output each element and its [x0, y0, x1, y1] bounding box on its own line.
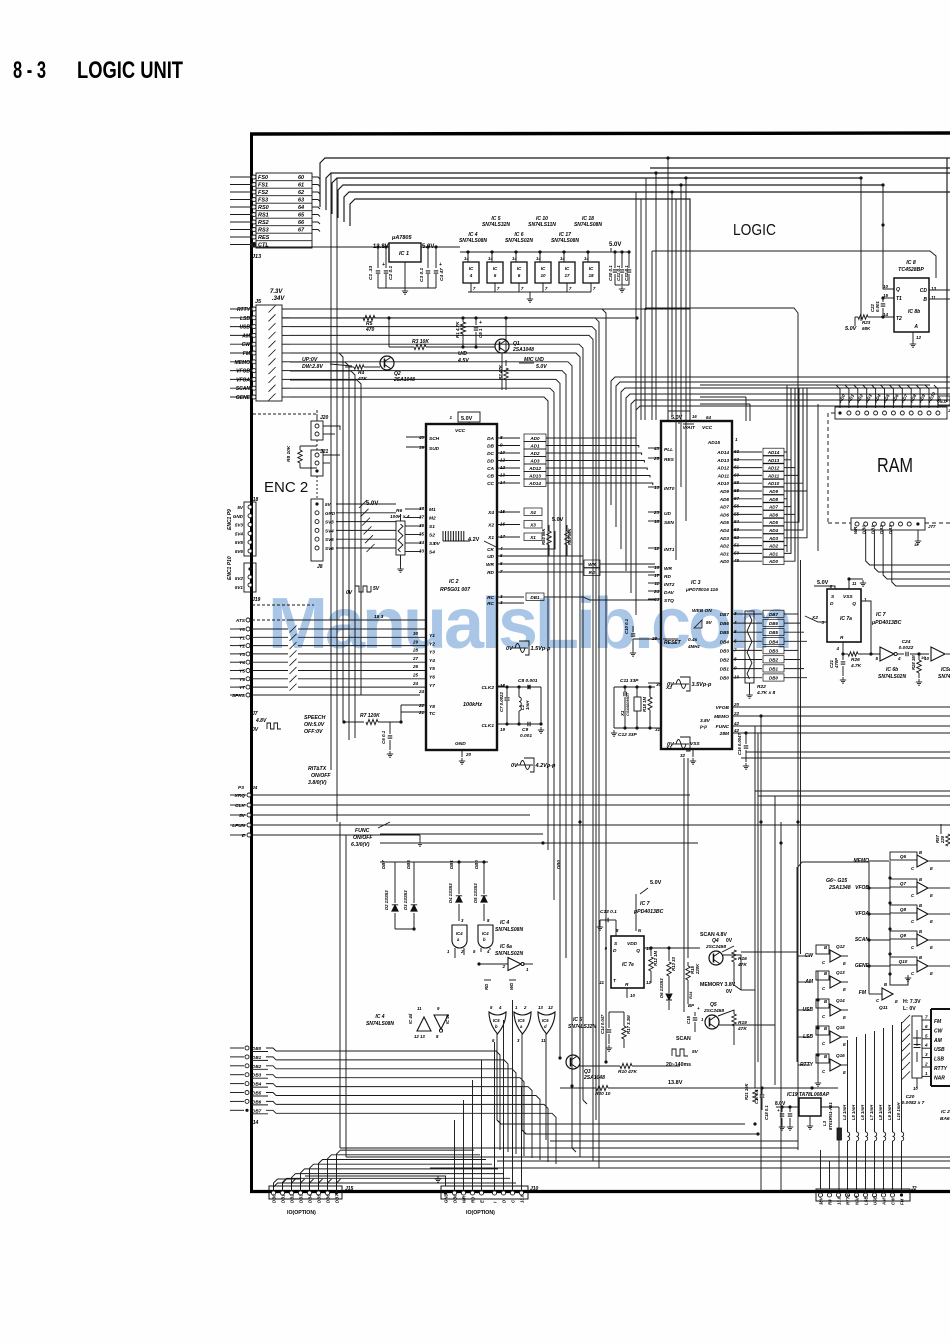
svg-text:B: B — [919, 903, 922, 908]
svg-text:VFOB: VFOB — [236, 369, 250, 375]
capacitor C32 0.1 — [628, 252, 630, 268]
svg-text:D2 1SS53: D2 1SS53 — [384, 890, 389, 910]
svg-text:CB: CB — [487, 474, 494, 480]
svg-text:RAM: RAM — [877, 455, 913, 477]
svg-text:11: 11 — [599, 980, 604, 985]
wire mode rail trunk x869 — [868, 862, 870, 994]
svg-text:34: 34 — [419, 540, 425, 545]
svg-text:19: 19 — [500, 727, 506, 732]
svg-text:Q12: Q12 — [836, 944, 845, 949]
svg-text:5V6: 5V6 — [235, 549, 244, 554]
resistor array block right — [912, 1016, 922, 1078]
wire 5V row y309 — [282, 308, 690, 310]
svg-text:R14: R14 — [688, 991, 693, 999]
svg-text:AD14: AD14 — [767, 450, 780, 455]
junction top bus — [666, 156, 669, 159]
wire J14 bus rightward — [276, 1051, 500, 1150]
svg-text:5V: 5V — [239, 813, 246, 819]
svg-text:IC 7: IC 7 — [640, 901, 651, 907]
svg-text:RES: RES — [258, 235, 270, 241]
svg-text:A: A — [913, 324, 918, 330]
svg-text:J77: J77 — [928, 524, 936, 529]
svg-text:DB2: DB2 — [252, 1064, 262, 1069]
svg-text:DB4: DB4 — [308, 1194, 313, 1203]
svg-text:Q11: Q11 — [879, 1005, 888, 1011]
svg-text:ON/OFF: ON/OFF — [353, 835, 373, 841]
svg-text:RTTY: RTTY — [237, 307, 251, 313]
svg-text:R26: R26 — [851, 657, 860, 663]
svg-text:54: 54 — [734, 519, 740, 524]
wire vertical x688 lower — [687, 758, 689, 958]
svg-text:47K: 47K — [737, 962, 747, 968]
svg-text:C7 0.0022: C7 0.0022 — [499, 692, 504, 712]
resistor R5 470 — [282, 317, 363, 319]
wire x803 x807 verticals — [802, 388, 804, 452]
wire emitters to matrix — [848, 961, 906, 963]
ground crystal — [613, 687, 615, 728]
wire top bus y192 — [344, 192, 950, 222]
IC3 uPD78016 microprocessor — [661, 421, 732, 749]
svg-text:S1: S1 — [429, 524, 435, 530]
svg-text:μPD4013BC: μPD4013BC — [871, 620, 902, 626]
capacitor C3 0.1 — [427, 247, 429, 268]
wire J5 descenders left group — [290, 353, 343, 722]
svg-text:FS3: FS3 — [258, 198, 268, 204]
svg-text:2: 2 — [924, 1062, 928, 1067]
wire MEMO down — [760, 716, 762, 790]
svg-text:INT2: INT2 — [664, 582, 675, 588]
svg-text:WEB ON: WEB ON — [692, 608, 712, 614]
svg-text:DB7: DB7 — [720, 612, 730, 617]
svg-text:62: 62 — [298, 190, 304, 196]
svg-text:D6 1SS53: D6 1SS53 — [659, 978, 664, 998]
svg-text:24: 24 — [418, 689, 425, 694]
svg-text:53: 53 — [734, 527, 740, 532]
wire vertical x695 lower — [694, 755, 696, 790]
wire top bus y185 — [338, 185, 883, 218]
svg-text:0V: 0V — [252, 727, 259, 733]
wire J2 stubs — [820, 1150, 822, 1189]
svg-text:220: 220 — [940, 835, 945, 844]
svg-text:GND: GND — [444, 1193, 449, 1203]
resistor R10 47K — [580, 1065, 620, 1067]
svg-text:Q6: Q6 — [900, 854, 907, 859]
svg-text:RD: RD — [484, 983, 489, 990]
wire J13 outputs — [312, 177, 320, 179]
svg-text:68K: 68K — [862, 326, 871, 331]
svg-text:RD: RD — [471, 1197, 476, 1203]
page title — [13, 57, 183, 84]
svg-text:ATS: ATS — [235, 618, 246, 624]
waveform 1.5Vpp — [512, 641, 529, 655]
svg-text:IC5: IC5 — [542, 1018, 549, 1023]
wire vertical x684 lower — [683, 758, 685, 1012]
svg-text:DB3: DB3 — [720, 648, 730, 653]
svg-text:16: 16 — [500, 522, 506, 527]
capacitor C7 0.0022 — [505, 698, 510, 700]
svg-text:RS1: RS1 — [258, 213, 269, 219]
ground J4 E — [419, 835, 421, 840]
capacitor C15 1 — [694, 1012, 696, 1016]
wire mode rail horizontal — [798, 862, 869, 867]
wire vertical bus x798 — [797, 385, 799, 1150]
svg-text:B: B — [884, 982, 887, 987]
svg-text:WR: WR — [486, 562, 495, 568]
wire IC3 top feeders — [745, 397, 747, 421]
svg-text:SPEECH: SPEECH — [304, 715, 326, 721]
svg-text:L9 1mH: L9 1mH — [887, 1104, 892, 1120]
svg-text:J7: J7 — [252, 711, 258, 717]
wire top bus y178 — [332, 178, 861, 214]
svg-text:4.7K x 8: 4.7K x 8 — [756, 690, 775, 696]
resistor R1 4.7K — [462, 318, 464, 322]
svg-text:AD1: AD1 — [719, 551, 730, 556]
svg-text:Y3: Y3 — [239, 652, 245, 658]
svg-text:C20: C20 — [906, 1094, 915, 1100]
svg-text:AM: AM — [241, 333, 251, 339]
svg-text:AD15: AD15 — [707, 440, 721, 446]
svg-text:X4: X4 — [529, 510, 536, 515]
svg-text:WAIT: WAIT — [683, 425, 696, 431]
svg-text:GENE: GENE — [236, 395, 251, 401]
svg-text:IC 4d: IC 4d — [408, 1013, 413, 1024]
svg-text:X3: X3 — [529, 523, 536, 528]
junction right bus — [859, 176, 862, 179]
svg-text:VFOA: VFOA — [855, 911, 869, 917]
svg-text:10: 10 — [913, 1086, 918, 1091]
capacitor C16 0.0047 — [745, 733, 747, 744]
svg-text:VSS: VSS — [690, 741, 700, 747]
svg-text:R17 3.3M: R17 3.3M — [626, 1015, 631, 1034]
wire vertical x755 — [760, 716, 762, 790]
svg-text:2SC2458: 2SC2458 — [703, 1008, 724, 1014]
connector J10 option — [441, 1186, 528, 1199]
svg-text:43: 43 — [653, 446, 660, 451]
svg-text:0.0022: 0.0022 — [899, 645, 914, 651]
svg-text:+: + — [382, 262, 385, 268]
svg-text:Y7: Y7 — [429, 683, 435, 689]
svg-text:Q7: Q7 — [900, 881, 907, 886]
wire top bus y158 — [320, 158, 950, 207]
svg-text:8 - 3: 8 - 3 — [13, 57, 46, 84]
svg-text:WD: WD — [509, 982, 514, 990]
svg-text:DB7: DB7 — [769, 612, 778, 617]
wire vertical x761 x775 x781 — [760, 790, 762, 1191]
svg-text:42: 42 — [733, 721, 740, 726]
svg-text:4: 4 — [835, 646, 839, 651]
svg-text:29: 29 — [651, 636, 658, 641]
svg-text:B: B — [824, 999, 827, 1004]
svg-text:E: E — [843, 987, 846, 992]
wire long horizontal y1157 — [346, 1156, 950, 1158]
resistor array R22 4.7Kx8 — [745, 611, 754, 683]
waveform 4.2Vpp — [517, 758, 534, 772]
svg-text:PLL: PLL — [664, 447, 673, 453]
svg-text:65: 65 — [298, 213, 305, 219]
svg-text:4: 4 — [499, 546, 503, 551]
svg-text:470P: 470P — [834, 658, 839, 669]
svg-text:AD14: AD14 — [528, 481, 541, 486]
svg-text:BA6: BA6 — [940, 1116, 950, 1122]
resistor R7 120K — [344, 721, 364, 723]
svg-text:Q15: Q15 — [836, 1025, 845, 1030]
transistor Q12 CW — [816, 945, 829, 954]
ground gate row — [527, 296, 533, 302]
wire y1141 long — [550, 1140, 798, 1142]
svg-text:DB6: DB6 — [769, 621, 778, 626]
svg-text:DB1: DB1 — [769, 667, 778, 672]
svg-text:18: 18 — [914, 542, 919, 547]
wire Q6-Q10 emitters to right edge — [934, 860, 950, 862]
svg-text:28M: 28M — [719, 731, 730, 737]
svg-text:D5 1SS53: D5 1SS53 — [473, 883, 478, 903]
wire vertical x331 — [330, 173, 332, 770]
svg-text:S4: S4 — [429, 550, 435, 556]
IC7a uPD4013 flip-flop — [827, 589, 861, 642]
svg-text:E: E — [930, 971, 933, 976]
waveform X1 — [673, 737, 690, 751]
svg-text:CLK2: CLK2 — [481, 685, 494, 691]
resistor R17 3.3M — [623, 1012, 625, 1026]
svg-text:67: 67 — [298, 228, 305, 234]
wire J14 bus to right — [276, 1063, 950, 1065]
svg-text:AD12: AD12 — [716, 466, 729, 471]
svg-text:5V4: 5V4 — [235, 531, 244, 536]
svg-text:5V1: 5V1 — [235, 585, 244, 590]
transistor Q6 MEMO — [890, 852, 917, 860]
svg-text:DB2: DB2 — [290, 1194, 295, 1203]
svg-text:55: 55 — [734, 511, 740, 516]
wire RAM DB down-right — [866, 530, 950, 565]
transistor Q16 RTTY — [816, 1054, 829, 1063]
svg-text:60: 60 — [734, 472, 740, 477]
svg-text:P3: P3 — [238, 785, 244, 791]
svg-text:SN74LS08N: SN74LS08N — [574, 222, 602, 228]
svg-text:C12 33P: C12 33P — [618, 732, 637, 738]
svg-text:10: 10 — [540, 273, 546, 278]
svg-text:AD5: AD5 — [719, 520, 730, 525]
svg-text:SV3: SV3 — [325, 520, 334, 525]
svg-text:11: 11 — [654, 581, 659, 586]
resistor R14 — [687, 990, 689, 1004]
svg-text:Y8: Y8 — [429, 704, 435, 710]
svg-text:D: D — [502, 1200, 507, 1203]
transistor Q13 AM — [816, 971, 829, 980]
svg-text:IC 8: IC 8 — [906, 260, 916, 266]
transistor Q3 2SA1048 — [566, 1055, 580, 1069]
svg-text:DB4: DB4 — [720, 639, 730, 644]
schematic border thick bottom horizontal — [250, 1190, 950, 1193]
svg-text:IC: IC — [469, 266, 474, 271]
svg-text:C14 0.047: C14 0.047 — [600, 1014, 605, 1034]
svg-text:S2: S2 — [429, 533, 435, 539]
wire long horizontal y1161 — [497, 1160, 950, 1162]
svg-text:AD7: AD7 — [719, 505, 730, 510]
svg-text:RTTY: RTTY — [846, 1193, 851, 1205]
svg-text:MEMO: MEMO — [853, 858, 869, 864]
svg-text:DAV: DAV — [664, 590, 675, 596]
svg-text:+: + — [697, 1006, 700, 1011]
svg-text:SV4: SV4 — [325, 528, 334, 533]
svg-text:13.8: 13.8 — [837, 1196, 842, 1205]
svg-text:IC 4c: IC 4c — [445, 1013, 450, 1024]
svg-text:40: 40 — [418, 435, 425, 440]
svg-text:MEMO: MEMO — [234, 360, 250, 366]
wire 8V rail from gates to IC19 — [497, 1120, 745, 1124]
svg-text:DB7: DB7 — [381, 860, 386, 869]
capacitor C30 0.1 — [614, 252, 616, 268]
svg-text:IC5c: IC5c — [941, 667, 950, 673]
svg-text:5: 5 — [925, 1033, 928, 1038]
svg-text:C9: C9 — [522, 727, 528, 733]
svg-text:RESET: RESET — [664, 640, 682, 646]
wire vertical bus x800 — [800, 560, 802, 954]
IC7e flip-flop — [611, 936, 644, 988]
svg-text:20: 20 — [733, 702, 740, 707]
svg-text:13: 13 — [654, 485, 660, 490]
svg-text:12 13: 12 13 — [414, 1034, 425, 1039]
svg-text:14: 14 — [560, 256, 565, 261]
svg-text:SV6: SV6 — [325, 546, 334, 551]
RAM dashed outline — [827, 413, 829, 523]
svg-text:X4: X4 — [487, 510, 494, 516]
svg-text:C24: C24 — [902, 639, 911, 645]
svg-text:R18 1M: R18 1M — [642, 697, 647, 712]
svg-text:OFF:0V: OFF:0V — [304, 729, 323, 735]
svg-text:E: E — [843, 1042, 846, 1047]
svg-text:RES: RES — [664, 457, 675, 463]
svg-text:LSB: LSB — [864, 1196, 869, 1205]
svg-text:100K x 4: 100K x 4 — [390, 514, 410, 520]
svg-text:DB: DB — [487, 444, 494, 450]
svg-text:47K: 47K — [737, 1026, 747, 1032]
svg-text:BP: BP — [688, 1003, 694, 1008]
svg-text:S3: S3 — [429, 541, 435, 547]
svg-text:DB0: DB0 — [474, 860, 479, 869]
ground J77 — [917, 530, 919, 538]
svg-text:DB5: DB5 — [406, 860, 411, 869]
svg-text:AD8: AD8 — [719, 497, 730, 502]
svg-text:C10 0.1: C10 0.1 — [624, 618, 629, 634]
svg-text:64: 64 — [706, 415, 712, 420]
svg-text:RD: RD — [664, 574, 671, 580]
svg-text:DB6: DB6 — [252, 1099, 262, 1104]
svg-text:SN74LS02N: SN74LS02N — [495, 951, 523, 957]
ground Q16 rail — [815, 1080, 821, 1086]
svg-text:R23: R23 — [862, 320, 871, 325]
svg-text:μA7805: μA7805 — [391, 235, 412, 241]
svg-text:25: 25 — [653, 456, 660, 461]
svg-text:UD: UD — [664, 511, 671, 517]
wire Q5 memory output — [719, 1024, 734, 1026]
svg-text:SCAN 4.8V: SCAN 4.8V — [700, 932, 727, 938]
svg-text:IC: IC — [517, 266, 522, 271]
svg-text:C13 0.1: C13 0.1 — [600, 909, 617, 915]
svg-text:Y4: Y4 — [239, 660, 245, 666]
diode D6 1SS53 — [668, 990, 670, 993]
logic gate IC6 package — [511, 262, 527, 283]
IC right edge block — [931, 1009, 950, 1086]
resistor R4 47K — [345, 366, 354, 368]
svg-text:ENC 2: ENC 2 — [264, 479, 308, 496]
svg-text:+: + — [777, 1108, 780, 1113]
svg-text:L5 1mH: L5 1mH — [851, 1104, 856, 1120]
svg-text:39: 39 — [419, 445, 425, 450]
svg-text:Q: Q — [636, 948, 640, 954]
svg-text:RIT∆TX: RIT∆TX — [308, 766, 327, 772]
svg-text:C1 .33: C1 .33 — [368, 266, 374, 280]
wire Q5 emitter right — [719, 1024, 775, 1026]
svg-text:Q14: Q14 — [836, 998, 845, 1003]
svg-text:6: 6 — [925, 1024, 928, 1029]
svg-text:AD14: AD14 — [716, 450, 729, 455]
svg-text:Q16: Q16 — [836, 1053, 845, 1058]
power box 5.0V RAM — [938, 396, 950, 405]
svg-text:5.0: 5.0 — [940, 399, 947, 405]
wire top bus y173 — [326, 173, 950, 210]
wire scan line right — [733, 941, 735, 946]
svg-text:5.0V: 5.0V — [461, 416, 473, 422]
logic gate IC5 package — [487, 262, 503, 283]
wire to IC8 T2 — [860, 178, 862, 321]
schematic border thick left vertical — [250, 133, 253, 1191]
wire Q1 collector down — [501, 353, 503, 390]
svg-text:GND: GND — [325, 511, 336, 516]
svg-text:J8: J8 — [317, 564, 323, 570]
svg-text:4.2V: 4.2V — [468, 537, 480, 543]
wire AD netbox outputs vertical bus — [784, 388, 787, 452]
wire IC7e Q to Q4 — [644, 947, 700, 949]
svg-text:5V: 5V — [706, 620, 713, 626]
svg-text:SN74LS32N: SN74LS32N — [482, 222, 510, 228]
capacitor C22 0.001 — [882, 298, 884, 302]
svg-text:38: 38 — [419, 506, 425, 511]
svg-text:J20: J20 — [320, 415, 329, 421]
svg-text:30: 30 — [413, 631, 419, 636]
svg-text:DB5: DB5 — [769, 630, 778, 635]
wire J10 risers extended — [454, 1120, 456, 1160]
diagonal switch hatches — [902, 1015, 910, 1023]
svg-text:GND: GND — [233, 514, 244, 519]
wire right edge verticals upper — [940, 824, 942, 834]
svg-text:FM: FM — [900, 1198, 905, 1205]
svg-text:R28 1M: R28 1M — [911, 655, 916, 670]
svg-text:Q: Q — [896, 287, 900, 293]
wire long horizontal y810 — [340, 809, 950, 811]
wire J20 up — [252, 410, 317, 414]
svg-text:DB7: DB7 — [252, 1108, 262, 1113]
svg-text:0.001: 0.001 — [875, 301, 880, 312]
svg-text:470: 470 — [365, 327, 375, 333]
svg-text:C31 0.1: C31 0.1 — [616, 265, 621, 281]
svg-text:IC: IC — [589, 266, 594, 271]
svg-text:DC: DC — [487, 451, 494, 457]
svg-text:SCAN: SCAN — [676, 1036, 691, 1042]
svg-text:DB0: DB0 — [252, 1046, 262, 1051]
connector J15 RAM top — [835, 407, 947, 419]
svg-text:C18 0.1: C18 0.1 — [764, 1105, 769, 1120]
svg-text:WR: WR — [664, 566, 673, 572]
svg-text:61: 61 — [298, 183, 304, 189]
capacitor C10 0.1 — [633, 638, 661, 640]
svg-text:DB4: DB4 — [769, 639, 778, 644]
logic gate IC4 package — [463, 262, 479, 283]
svg-text:DB7: DB7 — [335, 1194, 340, 1203]
wire IC7a top — [849, 579, 863, 589]
svg-text:RC: RC — [487, 601, 494, 607]
svg-text:CD: CD — [920, 288, 928, 294]
svg-text:AD3: AD3 — [768, 536, 778, 541]
